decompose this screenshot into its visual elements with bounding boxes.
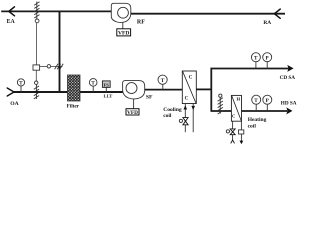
sensor T after fan <box>162 84 164 90</box>
balancing fitting <box>239 130 244 134</box>
heating coil H/C <box>231 95 241 121</box>
sensor P hot deck <box>266 104 268 111</box>
svg-text:OA: OA <box>10 101 18 107</box>
svg-text:Filter: Filter <box>67 104 80 110</box>
wire SA duct line fan to coil <box>145 89 183 91</box>
wire link motor to OA damper <box>35 70 37 81</box>
link pivot circle <box>47 65 50 68</box>
wire CD SA duct line <box>211 68 289 70</box>
sensor T cold deck <box>255 62 257 69</box>
OA inlet chevron <box>7 88 14 96</box>
svg-text:C: C <box>189 75 193 80</box>
HD SA arrow <box>286 107 292 114</box>
wire HD SA duct line <box>211 110 288 112</box>
svg-text:LLT: LLT <box>104 94 113 99</box>
damper D1 actuator <box>35 19 39 23</box>
VFD box (return fan) <box>117 29 131 36</box>
cooling coil C/C <box>182 71 196 104</box>
svg-text:T: T <box>254 55 258 61</box>
HW return flow arrow down <box>240 141 244 145</box>
damper D3 actuator <box>35 81 38 84</box>
fan SF supply fan <box>123 81 145 99</box>
wire OA duct line <box>14 91 123 93</box>
svg-text:EA: EA <box>7 19 16 25</box>
svg-text:T: T <box>161 78 165 84</box>
wire EA duct line <box>1 10 111 12</box>
damper D2 recirculation damper <box>55 64 64 69</box>
damper D4 hot deck damper <box>218 97 223 114</box>
svg-text:HD SA: HD SA <box>281 100 297 106</box>
RA flow arrow <box>274 9 280 18</box>
damper motor M <box>33 65 40 70</box>
svg-text:H: H <box>237 97 241 102</box>
svg-text:T: T <box>254 98 258 104</box>
svg-text:CD SA: CD SA <box>280 75 296 81</box>
svg-text:RA: RA <box>263 20 271 26</box>
CD SA arrow <box>287 65 293 72</box>
wire RF fan to VFD stem <box>122 23 124 29</box>
VFD box (supply fan) <box>126 109 139 115</box>
svg-text:VFD: VFD <box>118 31 129 37</box>
wire SA duct line coil to header <box>196 88 211 90</box>
valve V1 cooling coil valve <box>183 118 188 125</box>
fan RF return fan <box>111 3 131 22</box>
sensor T outside air <box>20 86 22 92</box>
svg-text:RF: RF <box>137 19 145 25</box>
pipe CHW return <box>192 104 194 133</box>
svg-text:C: C <box>185 96 189 101</box>
svg-text:FS: FS <box>104 82 110 87</box>
damper D3 outside-air damper <box>34 84 39 99</box>
svg-text:SF: SF <box>146 95 153 101</box>
HW supply flow arrow up <box>231 140 235 143</box>
svg-text:C: C <box>232 114 235 119</box>
svg-text:coil: coil <box>163 113 172 119</box>
pipe HW supply <box>232 121 234 140</box>
pipe CHW supply <box>184 104 186 133</box>
sensor FS flow switch <box>105 87 107 92</box>
wire recirculation duct vertical <box>59 11 61 92</box>
wire SF fan to VFD stem <box>133 99 135 109</box>
sensor P cold deck <box>266 62 268 69</box>
wire actuator link vertical <box>36 23 38 65</box>
damper D1 exhaust-air damper <box>34 2 39 20</box>
filter <box>68 75 81 101</box>
svg-text:VFD: VFD <box>127 110 138 116</box>
wire RA duct line <box>131 13 285 15</box>
EA flow arrow <box>9 7 15 16</box>
sensor T after filter <box>92 86 94 92</box>
pipe HW return <box>240 121 242 141</box>
valve V2 heating coil valve <box>230 129 235 135</box>
sensor T hot deck <box>255 104 257 111</box>
wire deck header vertical <box>210 68 212 111</box>
svg-text:Heating: Heating <box>248 117 267 123</box>
svg-text:coil: coil <box>248 124 257 130</box>
damper D4 hot deck damper actuator <box>219 94 222 97</box>
wire link to recirc damper <box>40 66 48 68</box>
